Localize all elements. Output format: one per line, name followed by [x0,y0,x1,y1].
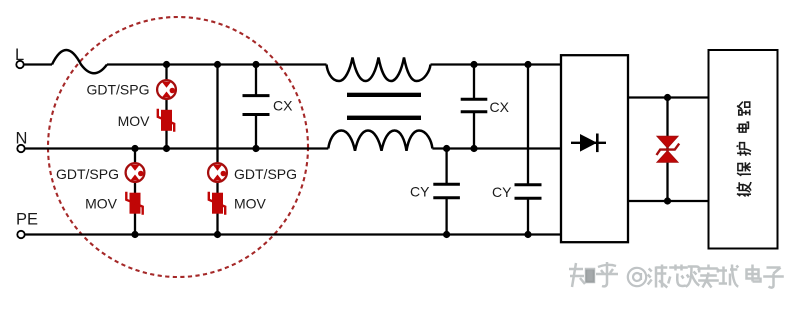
svg-text:GDT/SPG: GDT/SPG [86,82,149,98]
rectifier bridge box [561,55,628,242]
GDT/SPG symbol GDT2 [126,163,145,182]
svg-text:GDT/SPG: GDT/SPG [56,166,119,182]
wire branch CY1 [445,149,447,235]
terminal PE [17,231,24,238]
wire L to fuse [24,63,52,65]
svg-text:MOV: MOV [85,195,118,211]
svg-text:MOV: MOV [118,113,151,129]
svg-text:CX: CX [273,98,293,114]
junction L-x256 [252,61,259,68]
label 被保护电路 (protected circuit), rotated [737,102,751,197]
junction N-x256 [252,145,259,152]
capacitor CX1 plates [243,96,270,115]
protected circuit box [709,50,778,249]
wire N line to choke [25,147,329,149]
junction PE-x528 [524,231,531,238]
fuse F1 (thermal fuse S-curve) [52,50,107,73]
MOV varistor RV2 [126,192,142,215]
diode D1 [571,134,606,153]
svg-text:CY: CY [410,184,430,200]
inductor L-winding of common-mode choke [327,58,431,82]
wire PE line [25,233,561,235]
MOV varistor RV3 [209,192,225,215]
wire L line fuse to choke [107,63,327,65]
junction DC- TVS [664,197,671,204]
junction N-x446 [443,145,450,152]
junction N-x166 [163,145,170,152]
capacitor CY1 plates [433,184,460,197]
choke core bar upper [347,93,421,97]
junction L-x166 [163,61,170,68]
junction PE-x446 [443,231,450,238]
svg-text:GDT/SPG: GDT/SPG [234,166,297,182]
wire DC+ rail [628,96,709,98]
wire branch L-N at x166 [165,65,167,149]
junction L-x474 [470,61,477,68]
wire TVS branch [666,98,668,202]
wire branch N-PE at x135 [134,149,136,235]
svg-text:CY: CY [492,184,512,200]
wire L line choke to rectifier [431,63,562,65]
terminal L [16,61,23,68]
junction N-x135 [131,145,138,152]
inductor N-winding of common-mode choke [328,131,432,151]
junction L-x217 [214,61,221,68]
MOV varistor RV1 [158,109,174,132]
TVS diode D2 (bidirectional) [657,136,680,162]
GDT/SPG symbol GDT3 [208,163,227,182]
capacitor CY2 plates [515,185,542,198]
wire N line choke to rectifier [432,147,561,149]
surge-protection boundary dashed circle [48,17,308,277]
wire branch CY2 [527,65,529,235]
svg-text:PE: PE [16,211,38,229]
junction DC+ TVS [664,94,671,101]
wire DC- rail [628,200,709,202]
terminal N [17,145,24,152]
svg-text:CX: CX [490,99,510,115]
wire branch L-PE at x217 [216,65,218,235]
junction PE-x217 [214,231,221,238]
junction L-x528 [524,61,531,68]
junction N-x474 [470,145,477,152]
choke core bar lower [347,116,421,120]
watermark 知乎 @ handle (embossed gray) [569,262,785,289]
svg-text:MOV: MOV [234,195,267,211]
GDT/SPG symbol GDT1 [157,80,176,99]
wire branch CX1 [255,65,257,149]
junction PE-x135 [131,231,138,238]
wire branch CX2 [473,65,475,149]
capacitor CX2 plates [461,99,488,111]
